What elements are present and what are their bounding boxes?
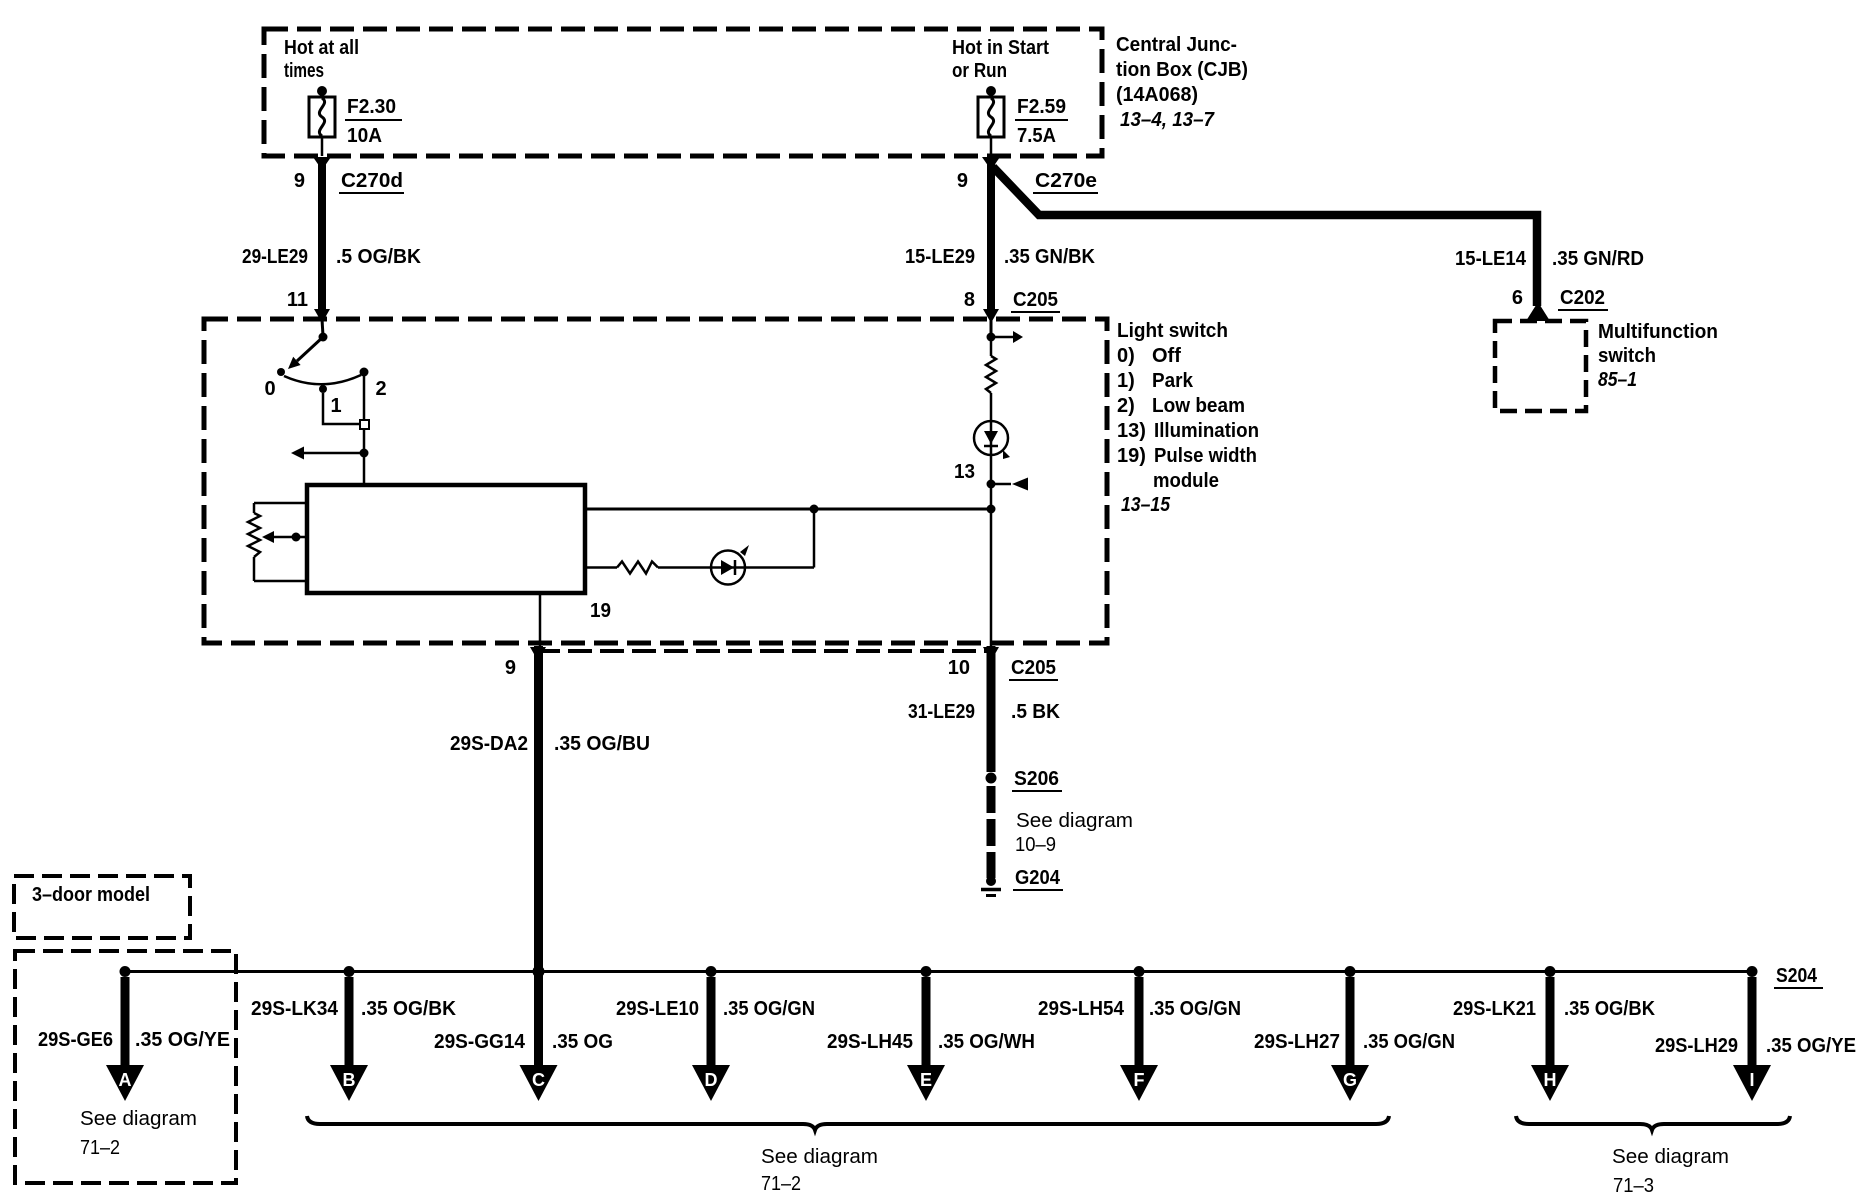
svg-text:(14A068): (14A068): [1116, 84, 1198, 106]
svg-text:29S-LH54: 29S-LH54: [1038, 998, 1125, 1020]
ground G204: [981, 876, 1001, 896]
svg-text:Low beam: Low beam: [1152, 395, 1245, 417]
splice node G: [1345, 966, 1356, 977]
wire 29S-LH29 .35 OG/YE with arrow I: [1748, 977, 1757, 1067]
module lower output resistor: [585, 566, 617, 569]
svg-text:Multifunction: Multifunction: [1598, 321, 1718, 343]
svg-text:.35 GN/RD: .35 GN/RD: [1552, 248, 1644, 270]
rheostat wiper tap: [266, 536, 307, 539]
svg-text:E: E: [920, 1070, 932, 1090]
wire 15-LE29 .35 GN/BK (fuse F2.59 to light switch pin 8): [987, 162, 995, 316]
svg-text:2: 2: [375, 378, 386, 400]
svg-text:switch: switch: [1598, 345, 1656, 367]
wire 29S-LH27 .35 OG/GN with arrow G: [1346, 977, 1355, 1067]
svg-text:I: I: [1749, 1070, 1754, 1090]
svg-text:85–1: 85–1: [1598, 369, 1637, 391]
brace (B through G): [307, 1116, 1389, 1130]
Central Junction Box (CJB) dashed enclosure: [264, 29, 1102, 156]
splice node F: [1134, 966, 1145, 977]
wire 29S-DA2 .35 OG/BU (pin 9 down to splice C): [534, 646, 543, 1067]
svg-text:71–3: 71–3: [1613, 1175, 1654, 1197]
node at main vertical: [987, 505, 996, 514]
wire 29S-GE6 .35 OG/YE with arrow A: [121, 977, 130, 1067]
svg-text:Hot in Start: Hot in Start: [952, 37, 1049, 59]
light switch dashed enclosure: [204, 319, 1107, 643]
svg-text:or Run: or Run: [952, 60, 1007, 82]
svg-text:31-LE29: 31-LE29: [908, 701, 975, 723]
wire from contact 2 down to module: [363, 376, 366, 420]
contact 0: [277, 368, 285, 376]
svg-text:See diagram: See diagram: [80, 1108, 197, 1130]
wire 29-LE29 .5 OG/BK (fuse F2.30 to light switch pin 11): [318, 162, 326, 316]
svg-text:See diagram: See diagram: [1016, 810, 1133, 832]
svg-text:Hot at all: Hot at all: [284, 37, 359, 59]
svg-text:29S-LE10: 29S-LE10: [616, 998, 699, 1020]
splice node H: [1545, 966, 1556, 977]
svg-text:.35 OG/GN: .35 OG/GN: [723, 998, 815, 1020]
svg-text:.35 OG/BK: .35 OG/BK: [361, 998, 457, 1020]
svg-text:2): 2): [1117, 395, 1135, 417]
wire: pin 11 to switch wiper pivot: [322, 319, 323, 336]
svg-text:.35 OG/BU: .35 OG/BU: [554, 733, 650, 755]
svg-text:29S-LK21: 29S-LK21: [1453, 998, 1536, 1020]
svg-text:Pulse width: Pulse width: [1154, 445, 1257, 467]
connector arrow pin 8 entry: [983, 309, 999, 323]
LED indicator (module): [711, 545, 749, 585]
svg-text:11: 11: [287, 289, 308, 311]
label list: Light switch positions: [1117, 320, 1259, 516]
wire from LED to junction: [813, 509, 816, 568]
wire from contact 1 (L shape): [323, 393, 360, 424]
svg-text:.35 OG/WH: .35 OG/WH: [938, 1031, 1035, 1053]
wire stub with left arrow: [300, 452, 364, 455]
svg-text:13: 13: [954, 461, 975, 483]
svg-text:S204: S204: [1776, 965, 1818, 987]
svg-text:.35 OG/BK: .35 OG/BK: [1564, 998, 1656, 1020]
svg-text:C270e: C270e: [1035, 170, 1097, 192]
connector arrow pin 9 exit: [530, 647, 546, 661]
multifunction switch dashed box: [1495, 321, 1586, 411]
svg-text:9: 9: [957, 170, 968, 192]
svg-text:C202: C202: [1560, 287, 1605, 309]
svg-text:0: 0: [264, 378, 275, 400]
svg-text:C270d: C270d: [341, 170, 403, 192]
svg-text:19: 19: [590, 600, 611, 622]
svg-text:Light switch: Light switch: [1117, 320, 1228, 342]
connector C205 dashed line (bottom): [536, 649, 994, 653]
svg-text:Central Junc-: Central Junc-: [1116, 34, 1237, 56]
switch wiper arm (pointing at position 0): [297, 337, 323, 361]
switch position arc (0-1-2): [284, 375, 361, 384]
junction square: [360, 420, 369, 429]
svg-text:.35 OG/GN: .35 OG/GN: [1149, 998, 1241, 1020]
connector arrow pin 11 entry: [314, 309, 330, 323]
svg-text:S206: S206: [1014, 768, 1059, 790]
node on output wire: [810, 505, 819, 514]
svg-text:10A: 10A: [347, 125, 382, 147]
svg-text:G: G: [1343, 1070, 1357, 1090]
svg-text:29-LE29: 29-LE29: [242, 246, 308, 268]
node with right arrow stub: [987, 333, 996, 342]
svg-text:times: times: [284, 60, 324, 82]
svg-text:F2.30: F2.30: [347, 96, 396, 118]
svg-text:.35 GN/BK: .35 GN/BK: [1004, 246, 1096, 268]
svg-text:13): 13): [1117, 420, 1146, 442]
3-door option dashed enclosure (around splice A): [15, 951, 236, 1183]
svg-text:module: module: [1153, 470, 1219, 492]
svg-text:29S-LH27: 29S-LH27: [1254, 1031, 1340, 1053]
svg-text:19): 19): [1117, 445, 1146, 467]
svg-text:Illumination: Illumination: [1154, 420, 1259, 442]
svg-text:C205: C205: [1011, 657, 1056, 679]
rheostat (dimmer) resistor: [248, 503, 307, 581]
wire (dashed continuation to ground): [987, 786, 996, 878]
svg-text:29S-GG14: 29S-GG14: [434, 1031, 526, 1053]
svg-text:7.5A: 7.5A: [1017, 125, 1056, 147]
svg-text:C: C: [532, 1070, 545, 1090]
svg-text:8: 8: [964, 289, 975, 311]
splice node A: [120, 966, 131, 977]
svg-text:See diagram: See diagram: [761, 1146, 878, 1168]
illumination resistor: [990, 337, 993, 356]
svg-text:3–door model: 3–door model: [32, 884, 150, 906]
splice node E: [921, 966, 932, 977]
3-door model dashed box: [14, 876, 190, 938]
svg-text:.5 BK: .5 BK: [1011, 701, 1061, 723]
svg-text:29S-GE6: 29S-GE6: [38, 1029, 113, 1051]
svg-text:10: 10: [948, 657, 970, 679]
splice node C: [533, 966, 545, 978]
wire 29S-LE10 .35 OG/GN with arrow D: [707, 977, 716, 1067]
svg-text:1): 1): [1117, 370, 1135, 392]
contact 1: [319, 385, 327, 393]
svg-text:1: 1: [330, 395, 341, 417]
svg-text:.35 OG/GN: .35 OG/GN: [1363, 1031, 1455, 1053]
svg-text:29S-DA2: 29S-DA2: [450, 733, 528, 755]
svg-text:G204: G204: [1015, 867, 1061, 889]
wire 29S-LH45 .35 OG/WH with arrow E: [922, 977, 931, 1067]
svg-text:.35 OG/YE: .35 OG/YE: [135, 1029, 230, 1051]
wire: pin 8 to illumination branch: [990, 319, 993, 337]
svg-text:Off: Off: [1152, 345, 1181, 367]
svg-text:15-LE14: 15-LE14: [1455, 248, 1527, 270]
LED indicator 13 (illumination): [974, 421, 1010, 459]
svg-text:71–2: 71–2: [80, 1137, 120, 1159]
svg-text:13–4, 13–7: 13–4, 13–7: [1120, 109, 1215, 131]
svg-text:9: 9: [505, 657, 516, 679]
wire 29S-LH54 .35 OG/GN with arrow F: [1135, 977, 1144, 1067]
node: feed junction: [360, 449, 369, 458]
contact 2: [360, 368, 369, 377]
svg-text:9: 9: [294, 170, 305, 192]
svg-text:29S-LK34: 29S-LK34: [251, 998, 339, 1020]
svg-text:C205: C205: [1013, 289, 1058, 311]
svg-text:.5 OG/BK: .5 OG/BK: [336, 246, 422, 268]
wire: module pin 19 down to box edge: [539, 593, 542, 646]
svg-text:29S-LH45: 29S-LH45: [827, 1031, 913, 1053]
wire 31-LE29 .5 BK (pin 10 to S206): [987, 646, 996, 772]
svg-text:B: B: [343, 1070, 356, 1090]
wire 29S-LK21 .35 OG/BK with arrow H: [1546, 977, 1555, 1067]
svg-text:10–9: 10–9: [1015, 834, 1056, 856]
connector arrow C270d (pin 9): [313, 157, 331, 170]
svg-text:See diagram: See diagram: [1612, 1146, 1729, 1168]
node: wiper pivot: [319, 333, 328, 342]
splice S206: [986, 773, 997, 784]
svg-text:29S-LH29: 29S-LH29: [1655, 1035, 1738, 1057]
wire 29S-LK34 .35 OG/BK with arrow B: [345, 977, 354, 1067]
wire: splice bus (thin horizontal): [125, 970, 1752, 973]
splice node D: [706, 966, 717, 977]
svg-text:71–2: 71–2: [761, 1173, 801, 1195]
fuse F2.30 10A: [309, 86, 335, 156]
pulse width module box: [307, 485, 585, 593]
svg-text:A: A: [119, 1070, 132, 1090]
wire 15-LE14 .35 GN/RD (branch to multifunction switch): [993, 167, 1537, 306]
svg-text:tion Box (CJB): tion Box (CJB): [1116, 59, 1248, 81]
splice node B: [344, 966, 355, 977]
connector arrow pin 10 exit: [983, 647, 999, 661]
splice node I (S204): [1747, 966, 1758, 977]
svg-text:F2.59: F2.59: [1017, 96, 1066, 118]
svg-text:D: D: [705, 1070, 718, 1090]
svg-text:0): 0): [1117, 345, 1135, 367]
arrow C (end of 29S-DA2 / 29S-GG14 .35 OG): [520, 1065, 558, 1101]
svg-text:F: F: [1134, 1070, 1145, 1090]
svg-text:.35 OG/YE: .35 OG/YE: [1766, 1035, 1856, 1057]
svg-text:H: H: [1544, 1070, 1557, 1090]
brace (H through I): [1516, 1116, 1790, 1130]
connector arrow C202 (pointing up): [1526, 302, 1550, 321]
svg-text:15-LE29: 15-LE29: [905, 246, 975, 268]
connector arrow C270e (pin 9): [982, 157, 1000, 170]
svg-text:13–15: 13–15: [1121, 494, 1171, 516]
svg-text:Park: Park: [1152, 370, 1194, 392]
fuse F2.59 7.5A: [978, 86, 1004, 156]
node with contact stub: [987, 480, 996, 489]
svg-text:.35 OG: .35 OG: [552, 1031, 613, 1053]
svg-text:6: 6: [1512, 287, 1523, 309]
wire: module output to illumination feed (horizontal): [585, 508, 991, 511]
